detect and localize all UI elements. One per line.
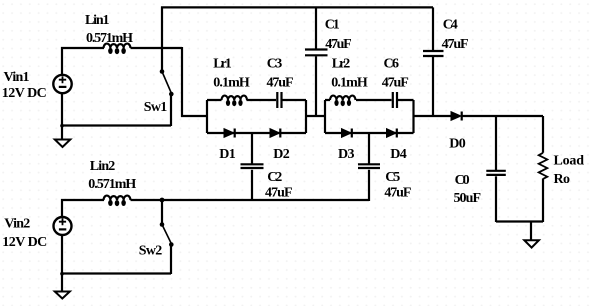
wire output bottom	[496, 220, 543, 222]
svg-text:47uF: 47uF	[382, 76, 409, 91]
wire Vin2 top to Lin2	[62, 200, 104, 217]
wire Lin2 rail to C5 bottom	[131, 199, 370, 201]
svg-text:47uF: 47uF	[384, 186, 411, 201]
cell 1 rectangle left edge	[206, 100, 208, 133]
ground Vin1	[61, 126, 63, 140]
wire Vin2 bottom return	[62, 235, 171, 274]
wire D0 to output node	[462, 115, 543, 117]
resistor Ro / Load	[542, 116, 544, 153]
svg-text:47uF: 47uF	[325, 37, 352, 52]
ground output	[530, 222, 532, 240]
inductor Lin2	[104, 196, 131, 207]
svg-text:Lr1: Lr1	[213, 57, 232, 72]
capacitor C5	[368, 133, 370, 164]
voltage source Vin1	[53, 75, 71, 93]
wire Sw1 bottom vertical	[170, 94, 172, 126]
wire Sw2 vertical	[161, 200, 163, 224]
diode D4	[387, 129, 397, 138]
svg-text:C2: C2	[267, 170, 282, 185]
switch Sw2	[162, 225, 172, 245]
svg-text:Vin2: Vin2	[4, 216, 30, 231]
svg-text:Load: Load	[554, 154, 585, 169]
svg-text:Lr2: Lr2	[332, 57, 351, 72]
svg-text:47uF: 47uF	[265, 186, 293, 201]
diode D2	[270, 129, 280, 138]
switch contact dots Sw1	[160, 69, 165, 74]
cell 1 right edge	[305, 100, 307, 133]
wire Lin1 to switch node	[131, 47, 183, 49]
svg-text:47uF: 47uF	[442, 37, 469, 52]
svg-text:12V DC: 12V DC	[2, 235, 47, 250]
svg-text:C1: C1	[325, 18, 340, 33]
cell 2 bottom wire	[325, 132, 414, 134]
cell 2 right edge	[412, 100, 414, 133]
svg-text:Sw1: Sw1	[144, 100, 168, 115]
svg-text:50uF: 50uF	[454, 191, 482, 206]
wire Vin1 top to Lin1	[62, 48, 104, 75]
svg-text:Lin1: Lin1	[85, 13, 110, 28]
inductor Lin1	[104, 44, 131, 55]
wire Sw1 upper vertical to top rail	[161, 7, 163, 72]
wire top rail	[161, 6, 433, 8]
diode D3	[342, 129, 352, 138]
switch Sw1	[162, 72, 172, 94]
wire Vin1 bottom return	[62, 93, 171, 126]
svg-text:47uF: 47uF	[267, 76, 294, 91]
capacitor C4	[432, 7, 434, 50]
inductor Lr2	[330, 96, 355, 107]
diode D0	[451, 112, 461, 121]
wire Sw2 bottom vertical	[170, 245, 172, 275]
capacitor C1	[315, 7, 317, 48]
svg-text:D2: D2	[273, 147, 290, 162]
cell 2 top wire segments	[325, 99, 414, 101]
svg-text:0.571mH: 0.571mH	[88, 177, 136, 192]
svg-text:C3: C3	[267, 57, 283, 72]
cell 2 rectangle left edge	[324, 100, 326, 133]
node junction dot Lin2/Sw2	[160, 198, 165, 203]
svg-text:0.571mH: 0.571mH	[86, 31, 133, 46]
svg-text:Vin1: Vin1	[4, 70, 30, 85]
svg-text:C6: C6	[384, 57, 400, 72]
svg-text:Ro: Ro	[554, 172, 571, 187]
svg-text:D0: D0	[449, 136, 466, 151]
wire cell1 out to cell2 in	[306, 115, 325, 117]
switch contact dots Sw2	[160, 222, 165, 227]
cell 1 top wire segments	[207, 99, 306, 101]
svg-text:D1: D1	[219, 147, 236, 162]
svg-text:D4: D4	[390, 147, 407, 162]
voltage source Vin2	[54, 217, 72, 235]
svg-text:D3: D3	[338, 147, 355, 162]
capacitor C2	[251, 133, 253, 164]
svg-text:C5: C5	[385, 170, 400, 185]
svg-text:0.1mH: 0.1mH	[331, 76, 368, 91]
svg-text:0.1mH: 0.1mH	[213, 76, 250, 91]
svg-text:12V DC: 12V DC	[2, 86, 47, 101]
capacitor C6 plates	[393, 92, 397, 108]
svg-text:Lin2: Lin2	[90, 159, 116, 174]
svg-text:C4: C4	[443, 18, 458, 33]
cell 1 bottom wire	[207, 132, 306, 134]
ground Vin2	[61, 274, 63, 292]
wire cell2 out to D0	[414, 115, 452, 117]
capacitor C3 plates	[277, 92, 281, 108]
inductor Lr1	[222, 96, 247, 107]
svg-text:C0: C0	[455, 173, 470, 188]
diode D1	[224, 129, 234, 138]
wire switch-node down to cell1 input	[182, 47, 207, 116]
capacitor C0	[495, 116, 497, 170]
svg-text:Sw2: Sw2	[139, 244, 163, 259]
